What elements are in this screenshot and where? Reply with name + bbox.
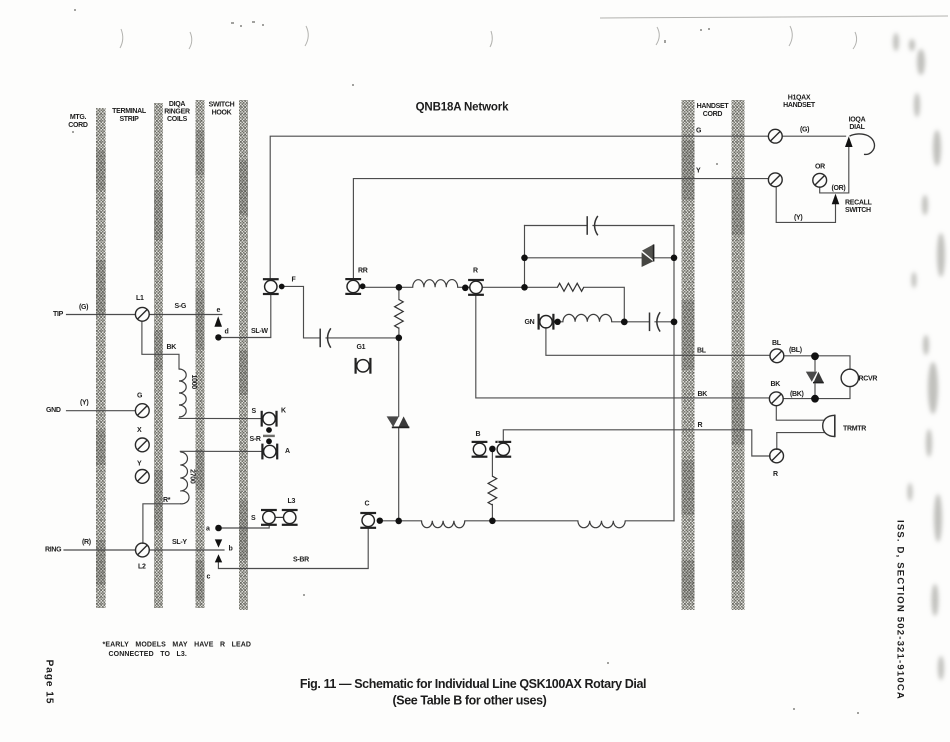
svg-text:IOQA: IOQA <box>849 117 866 124</box>
svg-text:STRIP: STRIP <box>119 116 139 123</box>
svg-text:a: a <box>206 526 210 533</box>
svg-text:(BK): (BK) <box>790 391 804 398</box>
svg-text:S: S <box>252 408 257 415</box>
svg-text:S-G: S-G <box>175 303 187 310</box>
svg-text:R: R <box>773 471 778 478</box>
svg-text:B: B <box>476 431 481 438</box>
svg-text:1000: 1000 <box>190 375 197 390</box>
svg-text:c: c <box>207 574 211 581</box>
svg-text:RECALL: RECALL <box>845 200 873 207</box>
svg-text:SL-Y: SL-Y <box>172 539 187 546</box>
svg-text:S: S <box>251 515 256 522</box>
svg-text:DIQA: DIQA <box>169 101 186 108</box>
svg-text:CORD: CORD <box>703 111 723 118</box>
svg-text:Page 15: Page 15 <box>44 660 55 705</box>
svg-text:(See Table B for other uses): (See Table B for other uses) <box>393 694 547 708</box>
svg-text:GN: GN <box>525 319 535 326</box>
svg-text:BK: BK <box>167 344 177 351</box>
svg-text:L2: L2 <box>138 564 146 571</box>
svg-text:K: K <box>281 408 286 415</box>
svg-text:CONNECTED TO L3.: CONNECTED TO L3. <box>109 651 187 658</box>
svg-text:BL: BL <box>697 348 707 355</box>
svg-text:Y: Y <box>696 168 701 175</box>
svg-text:SL-W: SL-W <box>251 328 268 335</box>
svg-text:COILS: COILS <box>167 116 188 123</box>
svg-text:GND: GND <box>46 407 61 414</box>
svg-text:(OR): (OR) <box>832 185 846 192</box>
svg-text:OR: OR <box>815 164 825 171</box>
svg-text:RR: RR <box>358 268 368 275</box>
svg-text:G: G <box>696 128 702 135</box>
svg-text:TERMINAL: TERMINAL <box>112 108 147 115</box>
svg-text:HOOK: HOOK <box>212 110 232 117</box>
svg-text:MTG.: MTG. <box>70 114 87 121</box>
svg-text:(Y): (Y) <box>80 400 88 407</box>
svg-text:DIAL: DIAL <box>849 124 865 131</box>
svg-text:HANDSET: HANDSET <box>697 103 730 110</box>
svg-text:TRMTR: TRMTR <box>843 426 866 433</box>
svg-text:BK: BK <box>771 381 781 388</box>
svg-text:(R): (R) <box>82 539 91 546</box>
svg-text:G1: G1 <box>357 344 366 351</box>
svg-text:ISS. D, SECTION 502-321-910CA: ISS. D, SECTION 502-321-910CA <box>895 520 906 700</box>
svg-text:A: A <box>285 448 290 455</box>
svg-text:BL: BL <box>772 340 782 347</box>
svg-text:L3: L3 <box>288 498 296 505</box>
svg-text:SWITCH: SWITCH <box>845 207 871 214</box>
svg-text:(Y): (Y) <box>794 215 802 222</box>
svg-text:L1: L1 <box>136 295 144 302</box>
svg-text:HANDSET: HANDSET <box>783 102 816 109</box>
svg-text:QNB18A Network: QNB18A Network <box>416 102 509 114</box>
svg-text:e: e <box>217 307 221 314</box>
svg-text:RCVR: RCVR <box>859 376 878 383</box>
svg-text:C: C <box>365 501 370 508</box>
svg-text:R*: R* <box>163 497 171 504</box>
svg-text:(BL): (BL) <box>789 347 802 354</box>
svg-text:TIP: TIP <box>53 311 64 318</box>
svg-text:CORD: CORD <box>68 122 88 129</box>
svg-text:R: R <box>473 268 478 275</box>
svg-text:b: b <box>229 546 233 553</box>
svg-text:*EARLY MODELS MAY HAVE R: *EARLY MODELS MAY HAVE R LEAD <box>103 642 252 649</box>
svg-text:Y: Y <box>137 461 142 468</box>
svg-text:2700: 2700 <box>188 469 195 484</box>
svg-text:BK: BK <box>698 391 708 398</box>
svg-text:(G): (G) <box>79 304 88 311</box>
svg-text:SWITCH: SWITCH <box>209 102 235 109</box>
svg-text:G: G <box>137 393 143 400</box>
svg-text:RING: RING <box>45 547 62 554</box>
svg-text:R: R <box>698 422 703 429</box>
svg-text:X: X <box>137 427 142 434</box>
svg-text:H1QAX: H1QAX <box>788 95 811 102</box>
svg-text:RINGER: RINGER <box>164 109 190 116</box>
svg-text:Fig. 11 — Schematic for Indivi: Fig. 11 — Schematic for Individual Line … <box>300 677 646 691</box>
svg-text:(G): (G) <box>800 127 809 134</box>
svg-text:S-R: S-R <box>250 436 261 443</box>
svg-text:d: d <box>225 329 229 336</box>
svg-text:S-BR: S-BR <box>293 557 309 564</box>
